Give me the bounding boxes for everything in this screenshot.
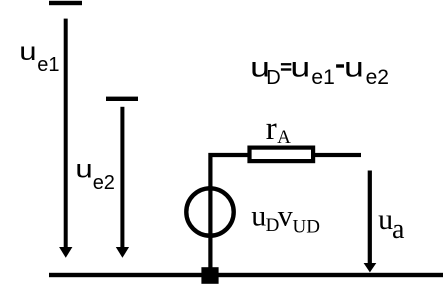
- svg-text:u: u: [344, 51, 364, 82]
- svg-text:e2: e2: [93, 172, 115, 194]
- svg-text:e1: e1: [37, 54, 59, 76]
- label u_e2: [75, 155, 115, 194]
- svg-text:u: u: [75, 155, 92, 183]
- ground rail: [49, 273, 443, 277]
- svg-text:A: A: [277, 127, 291, 148]
- svg-text:u: u: [290, 51, 310, 82]
- label u_D v_UD: [251, 200, 320, 238]
- voltage arrow u_e1: [59, 19, 72, 258]
- resistor r_A: [250, 148, 314, 162]
- svg-text:u: u: [378, 203, 393, 236]
- terminal bar input 2: [106, 97, 138, 101]
- voltage arrow u_a: [364, 171, 377, 273]
- terminal bar input 1: [49, 1, 82, 5]
- controlled voltage source symbol: [186, 186, 233, 270]
- equation u_D = u_e1 - u_e2: [250, 51, 389, 89]
- label u_e1: [19, 38, 59, 76]
- svg-text:e2: e2: [366, 66, 389, 89]
- svg-text:e1: e1: [311, 66, 334, 89]
- voltage arrow u_e2: [116, 107, 129, 258]
- svg-text:UD: UD: [293, 216, 320, 237]
- svg-text:a: a: [392, 214, 405, 245]
- svg-text:r: r: [266, 111, 277, 147]
- wire from source top corner to resistor: [210, 155, 249, 190]
- label u_a: [378, 203, 405, 245]
- wire from resistor to output node: [315, 153, 361, 157]
- svg-text:u: u: [19, 38, 36, 66]
- svg-text:u: u: [251, 200, 266, 233]
- label r_A: [266, 111, 291, 148]
- svg-text:D: D: [266, 67, 280, 89]
- svg-text:v: v: [278, 200, 293, 233]
- junction node square: [201, 267, 218, 284]
